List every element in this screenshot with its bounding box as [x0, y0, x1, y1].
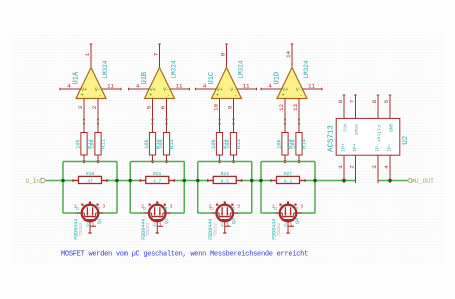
svg-text:7: 7 — [152, 52, 159, 56]
svg-text:3: 3 — [103, 205, 106, 210]
svg-text:4: 4 — [136, 83, 140, 90]
svg-text:3: 3 — [170, 205, 173, 210]
svg-text:TO252: TO252 — [145, 222, 151, 236]
svg-text:MOSFET werden vom µC geschalte: MOSFET werden vom µC geschalten, wenn Me… — [61, 251, 308, 259]
wire box right edge stage 1 — [116, 162, 118, 214]
svg-text:R13: R13 — [236, 139, 242, 149]
svg-text:4: 4 — [268, 83, 272, 90]
svg-text:TO252: TO252 — [213, 222, 219, 236]
op-amp U1D — [277, 68, 307, 99]
svg-text:D: D — [210, 207, 216, 210]
svg-text:12: 12 — [278, 104, 285, 112]
svg-text:LM324: LM324 — [237, 60, 244, 79]
wire box bottom edge right stage 2 — [166, 212, 185, 214]
svg-text:-: - — [299, 92, 302, 98]
wire V- power pin 11 of U1D — [302, 88, 322, 91]
svg-text:11: 11 — [308, 83, 316, 90]
svg-text:S: S — [96, 206, 102, 209]
svg-text:4: 4 — [203, 83, 207, 90]
svg-text:IP+: IP+ — [352, 143, 358, 152]
wire V+ power pin 4 of U1A — [60, 88, 81, 91]
svg-text:3: 3 — [77, 105, 84, 109]
svg-text:U1B: U1B — [141, 72, 149, 85]
wire box bottom edge left stage 3 — [198, 212, 217, 214]
wire net U_In main line (left segment) — [46, 180, 356, 182]
resistor R24 value 0,5 — [207, 171, 242, 184]
resistor R18 value 47 — [73, 171, 108, 184]
svg-text:GND: GND — [388, 123, 394, 132]
wire net out segment (pin3 to U_OUT) — [378, 180, 408, 182]
junction node right stage 2 — [182, 179, 186, 183]
svg-text:LM324: LM324 — [170, 60, 177, 79]
wire box bottom edge left stage 1 — [63, 212, 82, 214]
svg-text:3: 3 — [371, 165, 378, 169]
svg-text:Q1: Q1 — [96, 218, 102, 224]
wire pin 1 (IP+) of U2 — [343, 155, 345, 183]
wire box left edge stage 2 — [129, 162, 131, 214]
op-amp U1C — [212, 68, 242, 99]
svg-text:0,2: 0,2 — [284, 178, 293, 184]
transistor Q3 FDD8444 (MOSFET) — [211, 201, 238, 233]
svg-text:11: 11 — [175, 83, 183, 90]
svg-text:U_OUT: U_OUT — [415, 178, 434, 185]
wire box left edge stage 1 — [62, 162, 64, 214]
wire output of U1A — [90, 44, 93, 68]
wire bypass-loop box stage 2 (top edge) — [130, 161, 184, 163]
port U_In — [26, 178, 46, 185]
svg-text:+: + — [216, 92, 219, 98]
junction node at U2 pin 4 — [388, 179, 392, 183]
resistor 10k (right) stage 4 — [291, 133, 308, 164]
svg-text:G: G — [284, 223, 287, 229]
op-amp U1A — [76, 68, 106, 99]
svg-text:0,5: 0,5 — [221, 178, 230, 184]
resistor 10k (left) stage 1 — [76, 133, 93, 164]
svg-text:2: 2 — [348, 165, 355, 169]
IC U2 body — [336, 118, 400, 155]
svg-text:G: G — [86, 223, 89, 229]
wire box bottom edge right stage 4 — [296, 212, 315, 214]
wire bypass-loop box stage 1 (top edge) — [63, 161, 117, 163]
wire box bottom edge right stage 1 — [98, 212, 117, 214]
svg-text:U1A: U1A — [73, 71, 81, 84]
svg-text:R12: R12 — [169, 139, 175, 149]
junction node right stage 3 — [250, 179, 254, 183]
resistor 10k (left) stage 3 — [211, 133, 228, 164]
wire box bottom edge right stage 3 — [233, 212, 252, 214]
svg-text:R27: R27 — [284, 171, 293, 177]
svg-text:10k: 10k — [90, 139, 96, 149]
svg-text:11: 11 — [242, 83, 250, 90]
svg-text:10k: 10k — [144, 139, 150, 149]
svg-text:U1D: U1D — [274, 72, 282, 85]
wire V- power pin 11 of U1B — [170, 88, 190, 91]
svg-text:R21: R21 — [153, 171, 162, 177]
svg-text:ACS713: ACS713 — [327, 125, 335, 152]
wire box right edge stage 2 — [183, 162, 185, 214]
svg-text:U1C: U1C — [208, 72, 216, 85]
wire pin 8 (VCC) of U2 — [343, 95, 346, 118]
svg-text:-: - — [98, 92, 101, 98]
svg-text:TO252: TO252 — [276, 222, 282, 236]
junction node left stage 2 — [128, 179, 132, 183]
wire +input of U1B — [151, 99, 153, 133]
resistor R21 value 4,7 — [140, 171, 175, 184]
wire box bottom edge left stage 2 — [130, 212, 149, 214]
svg-text:+: + — [80, 92, 83, 98]
wire pin 2 (IP+) of U2 — [355, 155, 357, 183]
svg-text:10k: 10k — [291, 139, 297, 149]
svg-text:IP-: IP- — [387, 143, 393, 152]
svg-text:13: 13 — [292, 104, 299, 112]
svg-text:VCC: VCC — [342, 123, 348, 132]
op-amp U1B — [145, 68, 175, 99]
resistor 10k (right) stage 1 — [90, 133, 107, 164]
svg-text:10k: 10k — [76, 139, 82, 149]
wire -input of U1B — [165, 99, 167, 133]
resistor 10k (left) stage 2 — [144, 133, 161, 164]
svg-text:1: 1 — [337, 165, 344, 169]
transistor Q1 FDD8444 (MOSFET) — [77, 201, 104, 233]
svg-text:11: 11 — [107, 83, 115, 90]
wire V+ power pin 4 of U1C — [196, 88, 217, 91]
svg-text:47: 47 — [87, 178, 93, 184]
wire +input of U1C — [218, 99, 220, 133]
wire pin 7 (Vout) of U2 — [354, 95, 357, 118]
svg-text:TO252: TO252 — [78, 222, 84, 236]
svg-text:4,7: 4,7 — [153, 178, 162, 184]
svg-text:5: 5 — [145, 105, 152, 109]
svg-text:S: S — [294, 206, 300, 209]
svg-text:S: S — [163, 206, 169, 209]
wire pin 3 (IP-) of U2 — [377, 155, 379, 183]
wire -input of U1A — [97, 99, 99, 133]
wire +input of U1A — [83, 99, 85, 133]
svg-text:LM324: LM324 — [102, 60, 109, 79]
svg-text:-: - — [234, 92, 237, 98]
junction node right stage 1 — [115, 179, 119, 183]
transistor Q4 FDD8444 (MOSFET) — [275, 201, 302, 233]
svg-text:9: 9 — [226, 105, 233, 109]
svg-text:Filter: Filter — [376, 125, 382, 142]
junction node right stage 4 — [313, 179, 317, 183]
svg-text:8: 8 — [337, 99, 344, 103]
svg-text:R18: R18 — [86, 171, 95, 177]
svg-text:4: 4 — [67, 83, 71, 90]
wire -input of U1D — [298, 99, 300, 133]
junction node left stage 3 — [196, 179, 200, 183]
junction node left stage 1 — [61, 179, 65, 183]
wire pin 4 (IP-) of U2 — [389, 155, 391, 183]
svg-text:8: 8 — [219, 52, 226, 56]
svg-text:IP+: IP+ — [341, 143, 347, 152]
svg-text:6: 6 — [159, 105, 166, 109]
svg-text:10k: 10k — [211, 139, 217, 149]
svg-text:2: 2 — [91, 105, 98, 109]
svg-text:LM324: LM324 — [303, 60, 310, 79]
svg-text:Q3: Q3 — [231, 218, 237, 224]
svg-text:Q4: Q4 — [294, 218, 300, 224]
wire pin 6 (Filter) of U2 — [377, 95, 380, 118]
junction node left stage 4 — [259, 179, 263, 183]
wire bypass-loop box stage 3 (top edge) — [198, 161, 252, 163]
svg-text:Vout: Vout — [353, 124, 359, 136]
wire output of U1D — [291, 44, 294, 68]
wire box left edge stage 4 — [260, 162, 262, 214]
transistor Q2 FDD8444 (MOSFET) — [144, 201, 171, 233]
wire output of U1C — [225, 44, 228, 68]
svg-text:10: 10 — [212, 104, 219, 112]
svg-text:14: 14 — [285, 51, 292, 59]
svg-text:10k: 10k — [225, 139, 231, 149]
svg-text:3: 3 — [301, 205, 304, 210]
svg-text:5: 5 — [383, 99, 390, 103]
resistor 10k (right) stage 2 — [158, 133, 175, 164]
wire box right edge stage 4 — [314, 162, 316, 214]
svg-text:-: - — [167, 92, 170, 98]
svg-text:7: 7 — [348, 99, 355, 103]
svg-text:U_In: U_In — [26, 178, 41, 185]
wire V+ power pin 4 of U1D — [261, 88, 282, 91]
svg-text:3: 3 — [237, 205, 240, 210]
svg-text:U2: U2 — [402, 135, 410, 145]
svg-text:G: G — [153, 223, 156, 229]
svg-text:6: 6 — [371, 99, 378, 103]
svg-text:D: D — [142, 207, 148, 210]
wire box bottom edge left stage 4 — [261, 212, 280, 214]
resistor 10k (left) stage 4 — [277, 133, 294, 164]
wire pin 5 (GND) of U2 — [389, 95, 392, 118]
resistor R27 value 0,2 — [271, 171, 306, 184]
junction node at U2 pin 1 — [342, 179, 346, 183]
wire +input of U1D — [284, 99, 286, 133]
wire box left edge stage 3 — [197, 162, 199, 214]
svg-text:10k: 10k — [277, 139, 283, 149]
svg-text:+: + — [149, 92, 152, 98]
svg-text:Q2: Q2 — [164, 218, 170, 224]
wire V- power pin 11 of U1A — [101, 88, 121, 91]
svg-text:G: G — [221, 223, 224, 229]
resistor 10k (right) stage 3 — [225, 133, 242, 164]
svg-text:4: 4 — [383, 165, 390, 169]
svg-text:D: D — [75, 207, 81, 210]
svg-text:10k: 10k — [158, 139, 164, 149]
wire -input of U1C — [232, 99, 234, 133]
svg-text:R14: R14 — [302, 139, 308, 149]
svg-text:R24: R24 — [221, 171, 230, 177]
svg-text:R11: R11 — [101, 139, 107, 149]
wire V- power pin 11 of U1C — [237, 88, 257, 91]
wire box right edge stage 3 — [251, 162, 253, 214]
wire bypass-loop box stage 4 (top edge) — [261, 161, 315, 163]
port U_OUT — [408, 178, 434, 185]
svg-text:1: 1 — [84, 52, 91, 56]
svg-text:D: D — [273, 207, 279, 210]
svg-text:S: S — [231, 206, 237, 209]
wire output of U1B — [158, 44, 161, 68]
wire V+ power pin 4 of U1B — [129, 88, 150, 91]
svg-text:+: + — [281, 92, 284, 98]
svg-text:IP-: IP- — [375, 143, 381, 152]
